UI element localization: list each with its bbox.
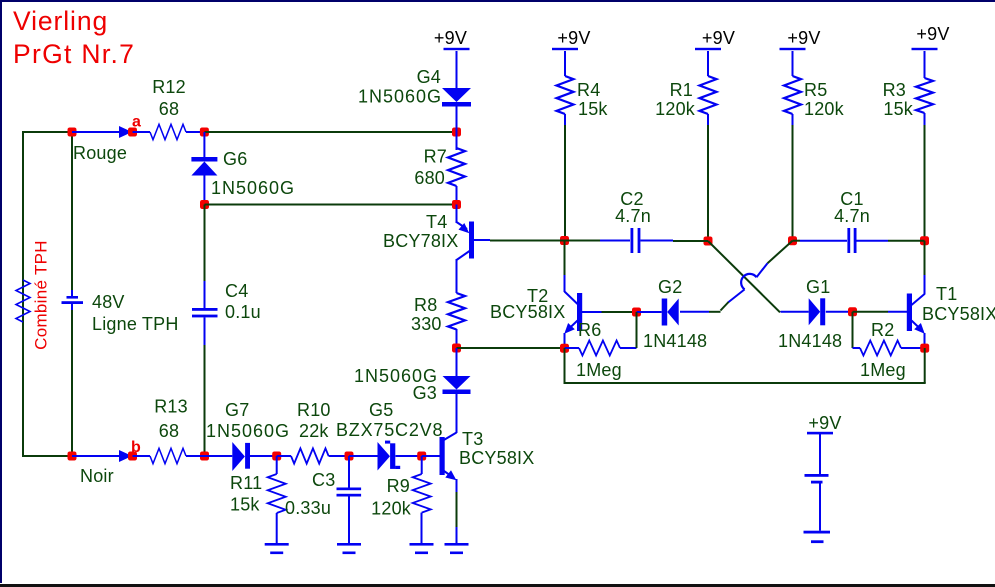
svg-text:BCY58IX: BCY58IX — [922, 304, 995, 324]
label G4 — [417, 67, 441, 87]
svg-text:1N5060G: 1N5060G — [206, 421, 290, 441]
label R11 — [230, 473, 262, 493]
label R11 value 15k — [230, 495, 260, 515]
label G5 value BZX75C2V8 — [336, 420, 443, 440]
label T4 value BCY78IX — [383, 231, 458, 251]
diode G6 — [191, 132, 217, 205]
svg-text:15k: 15k — [883, 99, 913, 119]
svg-text:R10: R10 — [297, 400, 331, 420]
label R12 value 68 — [159, 99, 179, 119]
wire R8node to T2 emitter — [457, 347, 565, 349]
svg-text:R2: R2 — [871, 320, 894, 340]
svg-text:R3: R3 — [883, 80, 906, 100]
svg-text:1N5060G: 1N5060G — [354, 366, 438, 386]
svg-text:G2: G2 — [658, 277, 682, 297]
label C2 value 4.7n — [615, 206, 651, 226]
label R1 value 120k — [655, 99, 696, 119]
wire G1 node to T1 base — [853, 311, 908, 313]
label R8 value 330 — [411, 314, 442, 334]
svg-text:4.7n: 4.7n — [615, 206, 651, 226]
svg-text:68: 68 — [159, 421, 179, 441]
label R8 — [414, 295, 437, 315]
diode G2 — [637, 299, 679, 326]
wire T1 collector from node — [924, 241, 926, 276]
label C3 — [312, 470, 335, 490]
resistor R2 — [853, 341, 925, 356]
wire C4 bottom — [204, 317, 206, 456]
resistor R8 — [448, 259, 465, 348]
label R1 — [670, 80, 693, 100]
label R10 — [297, 400, 331, 420]
wire crossover hop — [741, 274, 756, 290]
capacitor C2 — [631, 228, 641, 253]
svg-text:15k: 15k — [230, 495, 260, 515]
page border top — [0, 0, 995, 2]
transistor T3 (NPN BCY58IX) — [422, 433, 457, 493]
svg-text:1Meg: 1Meg — [576, 360, 622, 380]
junction (132.5,132) — [128, 128, 137, 137]
title text — [13, 6, 135, 69]
wire T2 collector from node — [564, 241, 566, 277]
label R5 value 120k — [804, 99, 845, 119]
svg-text:R6: R6 — [578, 320, 601, 340]
diode G7 — [205, 442, 277, 471]
svg-text:+9V: +9V — [787, 28, 820, 48]
resistor R6 — [565, 341, 637, 356]
svg-text:48V: 48V — [92, 292, 125, 312]
wire row-a to G4 column — [204, 131, 456, 133]
wire node to C1 — [793, 240, 848, 242]
wire C1 to node — [857, 240, 925, 242]
label T3 — [462, 429, 483, 449]
junction (456.5,348) — [452, 344, 461, 353]
label Combine TPH — [32, 240, 51, 350]
ground (R9) — [410, 513, 434, 555]
svg-text:R1: R1 — [670, 80, 693, 100]
label R6 — [578, 320, 601, 340]
junction (564.5,348.2) — [560, 344, 569, 353]
svg-text:1N5060G: 1N5060G — [358, 87, 442, 107]
wire diagonal node-R5 to hop — [757, 241, 793, 278]
junction (708,241) — [704, 237, 713, 246]
power +9V (G4) — [434, 28, 470, 50]
svg-text:4.7n: 4.7n — [834, 206, 870, 226]
junction (72,132) — [68, 128, 77, 137]
label C4 value 0.1u — [225, 302, 261, 322]
junction (204.4,132) — [200, 128, 209, 137]
resistor R13 — [133, 448, 205, 463]
label R6 value 1Meg — [576, 360, 622, 380]
svg-text:1N4148: 1N4148 — [778, 331, 842, 351]
wire R2 drop — [852, 312, 854, 348]
junction (456,132) — [452, 128, 461, 137]
label R4 — [577, 80, 600, 100]
wire a with arrow — [72, 126, 132, 138]
power +9V (R1) — [695, 28, 735, 50]
svg-text:R12: R12 — [152, 77, 186, 97]
label G6 value 1N5060G — [211, 178, 295, 198]
label G6 — [223, 149, 247, 169]
wire hop to G2 corner — [680, 289, 745, 311]
ground (C3) — [337, 497, 361, 555]
svg-text:R11: R11 — [230, 473, 262, 493]
ground (R11) — [265, 513, 289, 554]
label R9 value 120k — [371, 499, 412, 519]
svg-text:+9V: +9V — [434, 28, 467, 48]
wire T2 base to G2 node — [602, 311, 637, 313]
resistor R10 — [277, 448, 349, 463]
label C1 — [840, 189, 863, 209]
power +9V (R4) — [552, 28, 591, 50]
junction (792.5,240.7) — [788, 236, 797, 245]
power +9V (R3) — [912, 24, 950, 50]
label G5 — [369, 400, 393, 420]
svg-text:BCY58IX: BCY58IX — [490, 302, 565, 322]
svg-text:G3: G3 — [413, 383, 437, 403]
svg-text:+9V: +9V — [916, 24, 949, 44]
label R2 value 1Meg — [860, 360, 906, 380]
svg-text:1N5060G: 1N5060G — [211, 178, 295, 198]
label C3 value 0.33u — [285, 498, 331, 518]
svg-text:T3: T3 — [462, 429, 483, 449]
node a label — [132, 114, 141, 131]
label Rouge — [73, 143, 127, 163]
wire battery branch vertical bottom — [71, 310, 73, 456]
label T1 value BCY58IX — [922, 304, 995, 324]
label C1 value 4.7n — [834, 206, 870, 226]
wire emitter rail bottom — [564, 382, 926, 384]
svg-text:Vierling: Vierling — [13, 6, 108, 36]
wire T4 base to node — [490, 240, 565, 242]
label Ligne TPH — [92, 314, 179, 334]
diode G5 (zener) — [349, 441, 422, 471]
node b label — [131, 439, 141, 456]
resistor Combine TPH (handset) — [16, 280, 30, 322]
svg-text:BCY58IX: BCY58IX — [459, 448, 534, 468]
resistor R7 — [448, 132, 465, 205]
svg-text:G7: G7 — [225, 400, 249, 420]
svg-text:15k: 15k — [578, 99, 608, 119]
svg-text:G5: G5 — [369, 400, 393, 420]
transistor T1 (NPN BCY58IX, mirrored) — [907, 275, 925, 348]
resistor R1 — [700, 51, 717, 126]
svg-text:R9: R9 — [387, 476, 410, 496]
wire b with arrow — [72, 450, 132, 462]
svg-text:+9V: +9V — [808, 413, 841, 433]
page border left — [0, 0, 2, 583]
junction (636.5,312) — [632, 308, 641, 317]
svg-text:Noir: Noir — [80, 466, 114, 486]
label G1 value 1N4148 — [778, 331, 842, 351]
wire bottom-left horizontal — [23, 455, 72, 457]
junction (349,456) — [345, 452, 354, 461]
wire emitter rail right rise — [924, 348, 926, 383]
label R13 value 68 — [159, 421, 179, 441]
svg-text:R4: R4 — [577, 80, 600, 100]
svg-text:1N4148: 1N4148 — [643, 331, 707, 351]
wire node to C2 — [565, 240, 631, 242]
svg-text:G1: G1 — [806, 277, 830, 297]
junction (132.5,456) — [128, 452, 137, 461]
wire R5 to node — [792, 125, 794, 241]
wire left vertical (handset branch) — [22, 131, 24, 457]
svg-text:1Meg: 1Meg — [860, 360, 906, 380]
svg-text:T1: T1 — [936, 284, 957, 304]
battery B1 (9V) cell 1 — [805, 434, 829, 484]
junction (924.5,240.7) — [920, 236, 929, 245]
wire top-left horizontal — [23, 131, 72, 133]
capacitor C1 — [847, 228, 856, 253]
resistor R4 — [557, 51, 574, 126]
svg-text:BZX75C2V8: BZX75C2V8 — [336, 420, 443, 440]
resistor R11 — [268, 456, 286, 513]
capacitor C4 — [192, 308, 218, 317]
wire battery branch vertical top — [71, 132, 73, 290]
label R9 — [387, 476, 410, 496]
wire C3 top — [348, 456, 350, 488]
wire R3 to node — [924, 125, 926, 241]
svg-text:G4: G4 — [417, 67, 441, 87]
label R7 value 680 — [414, 168, 445, 188]
junction (853,312) — [848, 307, 857, 316]
label G7 value 1N5060G — [206, 421, 290, 441]
label G2 — [658, 277, 682, 297]
capacitor C3 — [337, 488, 362, 497]
svg-text:R7: R7 — [424, 147, 447, 167]
svg-text:22k: 22k — [299, 421, 329, 441]
label G4 value 1N5060G — [358, 87, 442, 107]
junction (204.5,456) — [200, 452, 209, 461]
svg-text:C3: C3 — [312, 470, 335, 490]
svg-text:0.33u: 0.33u — [285, 498, 331, 518]
svg-text:R5: R5 — [804, 80, 827, 100]
svg-text:120k: 120k — [371, 499, 412, 519]
label G3 — [413, 383, 437, 403]
svg-text:C4: C4 — [225, 281, 248, 301]
wire emitter rail left drop — [564, 348, 566, 383]
svg-text:R13: R13 — [154, 397, 188, 417]
svg-text:0.1u: 0.1u — [225, 302, 261, 322]
svg-text:120k: 120k — [655, 99, 696, 119]
junction (456,204) — [452, 200, 461, 209]
label R12 — [152, 77, 186, 97]
svg-text:Combiné TPH: Combiné TPH — [32, 240, 51, 350]
junction (421.7,456) — [417, 452, 426, 461]
wire R1 to node — [707, 125, 709, 241]
svg-text:+9V: +9V — [557, 28, 590, 48]
label R4 value 15k — [578, 99, 608, 119]
wire T3 emitter to ground — [456, 480, 458, 527]
svg-text:120k: 120k — [804, 99, 845, 119]
power +9V (battery stack) — [807, 413, 842, 434]
label T4 — [426, 212, 447, 232]
label T1 — [936, 284, 957, 304]
power +9V (R5) — [780, 28, 821, 50]
svg-text:Rouge: Rouge — [73, 143, 127, 163]
resistor R12 — [133, 124, 205, 139]
svg-text:Ligne TPH: Ligne TPH — [92, 314, 179, 334]
label R3 value 15k — [883, 99, 913, 119]
label T2 — [527, 286, 548, 306]
page border bottom — [0, 584, 995, 587]
junction (564.5,240.5) — [560, 236, 569, 245]
label C2 — [620, 189, 643, 209]
diode G3 — [443, 348, 471, 433]
junction (276.7,456) — [272, 452, 281, 461]
wire C4 top — [204, 205, 206, 309]
wire diagonal node-R1 to G1 — [708, 241, 780, 312]
resistor R9 — [413, 456, 431, 513]
transistor T4 (PNP BCY78IX) — [457, 205, 491, 261]
label G2 value 1N4148 — [643, 331, 707, 351]
diode G1 — [781, 298, 853, 325]
label R3 — [883, 80, 906, 100]
label R5 — [804, 80, 827, 100]
label R10 value 22k — [299, 421, 329, 441]
svg-text:T4: T4 — [426, 212, 447, 232]
svg-text:680: 680 — [414, 168, 445, 188]
junction (204.5,204.5) — [200, 200, 209, 209]
svg-text:PrGt Nr.7: PrGt Nr.7 — [13, 39, 135, 69]
label G3 value 1N5060G — [354, 366, 438, 386]
svg-text:BCY78IX: BCY78IX — [383, 231, 458, 251]
transistor T2 (NPN BCY58IX) — [564, 275, 601, 348]
wire G6 row — [205, 204, 457, 206]
wire R4 to node — [564, 125, 566, 241]
svg-text:68: 68 — [159, 99, 179, 119]
resistor R5 — [784, 51, 801, 126]
wire R6 up to base node — [636, 312, 638, 348]
label C4 — [225, 281, 248, 301]
label T3 value BCY58IX — [459, 448, 534, 468]
resistor R3 — [916, 51, 933, 126]
svg-text:+9V: +9V — [702, 28, 735, 48]
battery B1 (9V) cell 2 — [804, 484, 831, 544]
diode G4 — [442, 51, 471, 132]
wire C2 to node — [640, 240, 708, 243]
svg-text:G6: G6 — [223, 149, 247, 169]
svg-text:R8: R8 — [414, 295, 437, 315]
label G7 — [225, 400, 249, 420]
ground (T3 emitter) — [445, 527, 469, 554]
battery 48V Ligne TPH — [62, 290, 84, 310]
label T2 value BCY58IX — [490, 302, 565, 322]
label R7 — [424, 147, 447, 167]
label 48V — [92, 292, 125, 312]
label Noir — [80, 466, 114, 486]
svg-text:330: 330 — [411, 314, 442, 334]
junction (72,456) — [68, 452, 77, 461]
label R13 — [154, 397, 188, 417]
label G1 — [806, 277, 830, 297]
label R2 — [871, 320, 894, 340]
junction (924.7,348) — [920, 344, 929, 353]
